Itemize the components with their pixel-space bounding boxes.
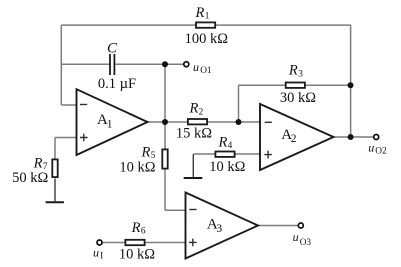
resistor R1 <box>196 22 215 27</box>
svg-text:2: 2 <box>199 107 204 117</box>
svg-text:u: u <box>93 246 99 260</box>
A3 plus sign <box>189 239 197 247</box>
node R3/right rail junction <box>348 82 354 88</box>
resistor R6 <box>125 240 144 245</box>
wire R7 branch <box>54 138 56 159</box>
node C/uO1 junction <box>162 61 168 67</box>
svg-text:1: 1 <box>107 118 113 130</box>
A3 minus sign <box>189 209 196 211</box>
op-amp A3 <box>186 193 259 259</box>
A1 minus sign <box>80 104 87 106</box>
node A2 output junction <box>348 134 354 140</box>
wire left vertical rail <box>60 25 62 105</box>
svg-text:O3: O3 <box>300 238 312 248</box>
svg-text:I: I <box>100 251 103 261</box>
resistor R5 <box>162 149 167 168</box>
A1 plus sign <box>80 134 88 142</box>
svg-text:10 kΩ: 10 kΩ <box>119 247 155 263</box>
ground (R4) <box>184 177 203 179</box>
wire top rail <box>61 24 350 26</box>
capacitor C plates <box>110 54 114 75</box>
resistor R7 <box>52 159 57 177</box>
ground (R7) <box>46 201 64 203</box>
wire right vertical rail <box>350 25 352 137</box>
svg-text:R: R <box>288 63 298 79</box>
svg-text:R: R <box>195 5 205 21</box>
node R2/R3/A2- junction <box>236 119 242 125</box>
svg-text:R: R <box>141 144 151 160</box>
terminal uO3 <box>298 223 303 228</box>
wire A3 output <box>258 225 298 227</box>
svg-text:10 kΩ: 10 kΩ <box>119 159 155 175</box>
terminal uO2 <box>374 135 379 140</box>
svg-text:2: 2 <box>291 133 297 145</box>
wire node uO1 to A1 output vertical <box>164 64 166 122</box>
wire A1 inverting input <box>61 104 76 106</box>
wire A1 output and R2 row <box>148 121 239 123</box>
wire R3 left vertical <box>238 85 240 122</box>
svg-text:u: u <box>368 141 374 155</box>
svg-text:u: u <box>193 60 199 74</box>
wire R5 branch vertical <box>164 122 166 210</box>
svg-text:3: 3 <box>298 70 303 80</box>
svg-text:R: R <box>189 101 199 117</box>
svg-text:10 kΩ: 10 kΩ <box>209 159 245 175</box>
svg-text:C: C <box>107 41 118 57</box>
wire R6 row to A3 noninverting input <box>102 242 185 244</box>
svg-text:R: R <box>131 220 141 236</box>
wire A2 inverting input <box>239 121 261 123</box>
svg-text:6: 6 <box>141 227 146 237</box>
svg-text:4: 4 <box>228 141 233 151</box>
svg-text:3: 3 <box>216 223 222 235</box>
ground (R7) lead <box>54 179 56 202</box>
ground (R4) lead <box>192 154 194 177</box>
terminal uO1 <box>184 62 189 67</box>
svg-text:50 kΩ: 50 kΩ <box>12 170 48 186</box>
wire A1 noninverting input <box>55 137 77 139</box>
wire R4 row to A2 noninverting input <box>193 153 260 155</box>
svg-text:15 kΩ: 15 kΩ <box>176 125 212 141</box>
node A1out/R5/R2 junction <box>162 119 168 125</box>
op-amp A1 <box>77 89 148 155</box>
svg-text:u: u <box>293 230 299 244</box>
A2 minus sign <box>265 121 272 123</box>
svg-text:100 kΩ: 100 kΩ <box>185 31 229 47</box>
resistor R4 <box>215 152 234 157</box>
svg-text:0.1 µF: 0.1 µF <box>98 76 136 92</box>
svg-text:R: R <box>33 155 43 171</box>
A2 plus sign <box>264 151 272 159</box>
svg-text:O2: O2 <box>375 147 387 157</box>
svg-text:30 kΩ: 30 kΩ <box>280 90 316 106</box>
op-amp A2 <box>260 104 334 170</box>
wire A3 inverting input <box>165 209 186 211</box>
terminal uI <box>97 240 102 245</box>
wire R3 row <box>239 84 351 86</box>
resistor R2 <box>188 119 207 124</box>
svg-text:1: 1 <box>205 12 210 22</box>
svg-text:O1: O1 <box>200 66 212 76</box>
svg-text:R: R <box>218 134 228 150</box>
wire capacitor row <box>61 63 183 65</box>
resistor R3 <box>286 83 305 88</box>
wire A2 output <box>334 136 374 138</box>
